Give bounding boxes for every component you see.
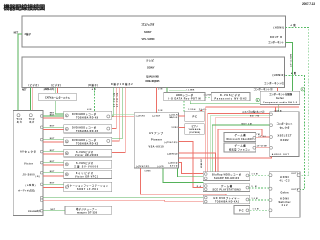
box: AV selector Victor JX-S900 (tall) (13, 111, 43, 216)
svg-text:セレクタ: セレクタ (280, 126, 291, 130)
svg-text:D-VHSビデオ: D-VHSビデオ (220, 93, 241, 97)
box: AV amp Pioneer VSA-AX10 (134, 113, 178, 169)
box: terrestrial tuner maspro (65, 206, 112, 214)
box: game Xbox360 (224, 133, 256, 142)
svg-text:5M: 5M (158, 110, 162, 112)
wire: TV D red to AV amp SAT (157, 88, 163, 113)
svg-text:(+)DVD/LD: (+)DVD/LD (167, 153, 178, 155)
svg-text:TOSHIBA HD-XA1: TOSHIBA HD-XA1 (215, 201, 240, 204)
box: piano YAMAHA (185, 124, 205, 134)
wire: TV to CATV terminal green (54, 88, 56, 94)
svg-text:コンポーネント: コンポーネント (268, 40, 285, 44)
wire pair row2 (40, 126, 63, 130)
wire: distributor red branch to comp selector top (248, 105, 282, 114)
svg-text:10M: 10M (252, 198, 258, 200)
svg-text:4M: 4M (87, 108, 91, 111)
svg-text:(HDMI2): (HDMI2) (273, 74, 285, 77)
wire: TV to CATV terminal red (57, 88, 59, 94)
svg-text:テレビ: テレビ (146, 59, 154, 63)
box: location free station SONY LF-PK1 (64, 182, 112, 191)
box U1: projector SONY VPL-VW60 (22, 16, 286, 47)
box: S-VHS Victor HR-20000 (64, 149, 112, 157)
svg-text:SONY: SONY (144, 30, 152, 34)
box: component selector XSELECT D4M2 (270, 112, 299, 157)
svg-text:2007.7.13: 2007.7.13 (302, 2, 315, 6)
wire: TV video2 red to selector (32, 88, 34, 112)
svg-text:YAMAHA: YAMAHA (189, 128, 201, 131)
svg-text:I-O DATA Rec-POT M: I-O DATA Rec-POT M (169, 98, 201, 101)
svg-text:5C-FB 5M: 5C-FB 5M (114, 93, 116, 107)
svg-text:AVC②: AVC② (170, 165, 178, 168)
svg-text:NET 3M: NET 3M (242, 124, 252, 126)
wire: amp TVmon1 red down to HD-XA1 top (141, 168, 227, 195)
wire: CATV down then to RD-X6 (50, 101, 64, 115)
wire: long red selector to HD-XA1 lower (40, 199, 203, 202)
svg-text:4x2: 4x2 (282, 204, 289, 207)
wire pair row4 (40, 150, 63, 154)
svg-text:OUT1: OUT1 (291, 173, 299, 175)
wire: projector HDMI dashed to switcher OUT1 (286, 23, 309, 175)
svg-text:i.LINK: i.LINK (186, 89, 194, 91)
wire: TV D1 green to RD-X6 right (112, 88, 113, 117)
svg-text:HDMI: HDMI (280, 176, 289, 179)
svg-text:AVアンプ: AVアンプ (149, 131, 163, 135)
wire: TV D-term dashed to RD-X6 (87, 88, 96, 112)
wire: amp VCR2 to piano red (179, 127, 185, 129)
box: game Nintendo (224, 143, 256, 152)
wire: amp TVmon2 red to PS3 D4 (179, 142, 204, 188)
svg-text:D4M2: D4M2 (281, 139, 290, 142)
wire: amp green to PS3 top (163, 168, 203, 182)
wire: red loop selector p3 to BluRay (218, 129, 270, 172)
svg-text:SHARP BD-HD100: SHARP BD-HD100 (214, 177, 240, 180)
svg-text:10M: 10M (252, 173, 258, 175)
wire: Nintendo to comp selector red (253, 144, 270, 150)
wire: TV iLINK to HDD rec (167, 88, 195, 93)
svg-text:4L-C2: 4L-C2 (280, 180, 291, 183)
svg-text:JX-S900: JX-S900 (23, 175, 36, 177)
wire: PC HDMI dashed to switcher (250, 209, 269, 211)
wire: RD-X6 to amp VCR1 red (112, 116, 134, 118)
svg-text:TOSHIBA RD-X6: TOSHIBA RD-X6 (76, 116, 99, 119)
svg-text:コンポーネント①: コンポーネント① (264, 81, 285, 85)
svg-text:Pioneer: Pioneer (151, 138, 162, 141)
wire pair row6 (40, 171, 63, 176)
wire pair row1 (40, 114, 63, 118)
box: component distributor Gefen DA 1:3 (260, 91, 299, 104)
wire: TV component1 red to distributor (254, 87, 278, 91)
svg-text:maspro DT-330: maspro DT-330 (77, 212, 98, 214)
svg-text:Gefen: Gefen (276, 97, 285, 100)
node: distributor out1 circle (301, 88, 304, 91)
wire: red pale loop to BluRay (216, 116, 270, 172)
wire: NET antenna into projector (14, 32, 22, 113)
wire: amp CD green to BluRay p2 (178, 168, 204, 176)
wire: TV D red to RD-X5 right (112, 88, 116, 129)
svg-text:SCE PLAYSTATION3: SCE PLAYSTATION3 (213, 189, 242, 192)
svg-text:(CLP880): (CLP880) (189, 132, 200, 134)
box: 8mm video (64, 170, 112, 178)
wire: amp CD-R to PC red (179, 115, 185, 117)
svg-text:Panasonic NV-DH2: Panasonic NV-DH2 (215, 98, 248, 101)
svg-text:VPL-VW60: VPL-VW60 (142, 37, 156, 41)
wire: iLINK dashed HDD to D-VHS (204, 95, 213, 98)
svg-text:(HDMI): (HDMI) (274, 27, 285, 30)
box: PC (top) (185, 111, 205, 121)
svg-text:コンポーネント②: コンポーネント② (254, 87, 274, 91)
svg-text:TOSHIBA RD-X5: TOSHIBA RD-X5 (76, 130, 99, 133)
box: S-VHS Mitsubishi SV-V6000 (64, 160, 112, 168)
node: distributor in circle2 (256, 98, 259, 101)
svg-text:Microsoft Xbox360: Microsoft Xbox360 (227, 138, 254, 141)
wire: amp DVD/LD red into loop bundle (179, 153, 216, 172)
box U2: TV SONY QUALIA KDE-46Q005 (22, 57, 285, 88)
svg-text:NET: NET (22, 89, 27, 91)
svg-text:OUT2: OUT2 (291, 189, 299, 191)
svg-text:XSELECT: XSELECT (278, 135, 293, 138)
svg-text:1394: 1394 (188, 108, 196, 111)
svg-text:Gefen: Gefen (281, 191, 290, 194)
svg-text:(+)CD: (+)CD (158, 166, 165, 168)
wire: long red loop under distributor (200, 107, 299, 172)
svg-text:(+)SAT: (+)SAT (152, 114, 161, 117)
box: BluRay SHARP BD-HD100 (203, 172, 249, 181)
box: game PS3 (203, 184, 249, 192)
wire: TV video out to selector port2 (30, 88, 32, 114)
svg-text:TOSHIBA RD-X3: TOSHIBA RD-X3 (76, 142, 99, 145)
box: HDD recorder Rec-POT M (164, 93, 205, 101)
svg-text:(+)VCR1: (+)VCR1 (136, 115, 145, 117)
svg-text:Victor: Victor (24, 162, 33, 165)
box: CATV home terminal (39, 93, 77, 101)
wire: amp AVC red to BluRay p1 (179, 163, 204, 174)
svg-text:AVセレクタ: AVセレクタ (20, 150, 36, 154)
svg-text:15M: 15M (253, 209, 259, 211)
wire pair row3 (40, 138, 63, 142)
svg-text:CATVホームターミナル: CATVホームターミナル (45, 95, 71, 99)
svg-text:PC: PC (239, 208, 244, 212)
wire pair row7 (40, 183, 63, 188)
wire: TV D red to RD-X3 right (112, 88, 119, 142)
svg-text:4M: 4M (92, 88, 96, 91)
wire: HD-XA1 HDMI dashed to switcher (249, 198, 269, 200)
wire: 1394 dashed HDD to PC (184, 101, 207, 112)
svg-text:5C-FB 5M: 5C-FB 5M (117, 93, 119, 107)
wire: BluRay HDMI dashed to switcher (249, 173, 269, 175)
wire: TV HDMI2 dashed to switcher OUT2 (286, 71, 305, 189)
wire: green pale loop to BluRay (210, 116, 269, 172)
svg-text:プロジェクタ: プロジェクタ (141, 23, 155, 27)
svg-text:5M: 5M (252, 186, 257, 188)
wire: long green selector to HD-XA1 (40, 196, 203, 199)
node: selector top input circles (17, 114, 20, 117)
svg-text:HDMI DVI: HDMI DVI (201, 159, 203, 169)
box: DVD/HDD TOSHIBA RD-X6 (64, 111, 112, 119)
box: HD DVD TOSHIBA HD-XA1 (203, 195, 249, 203)
wire: PS3 HDMI dashed to switcher (249, 186, 269, 188)
wire: TV D2 green to RD-X3 right (112, 88, 122, 139)
svg-text:Component audio DA 1:3: Component audio DA 1:3 (263, 101, 298, 104)
svg-text:3端子: 3端子 (25, 32, 32, 36)
box: DVD/HDD TOSHIBA RD-X5 (64, 125, 112, 133)
svg-text:HDDレコーダ: HDDレコーダ (176, 93, 194, 97)
svg-text:コンポーネント分配器: コンポーネント分配器 (269, 92, 293, 96)
wire: red loop selector p1 to BluRay (208, 110, 270, 172)
svg-text:SONY: SONY (147, 66, 155, 70)
wire: Xbox to comp selector red (253, 134, 270, 139)
wire: HDD green long to comp selector (190, 101, 260, 104)
svg-text:2M: 2M (158, 89, 162, 91)
svg-text:CVBS: CVBS (145, 170, 152, 172)
wire: RD-X6 to amp VCR1 green (112, 114, 134, 116)
title: 機器配線接続図 (4, 3, 46, 12)
svg-text:SONY LF-PK1: SONY LF-PK1 (77, 189, 99, 191)
svg-text:AUDIO OUT: AUDIO OUT (272, 153, 290, 156)
svg-text:(+)AVC①: (+)AVC① (168, 161, 178, 164)
svg-text:BD 7M: BD 7M (250, 116, 259, 118)
box: DVD/HDD TOSHIBA RD-X3 (64, 137, 112, 145)
svg-text:Victor HR-20000: Victor HR-20000 (75, 154, 99, 157)
svg-text:Victor GR-VFC1: Victor GR-VFC1 (75, 175, 99, 178)
svg-text:VCR2: VCR2 (172, 127, 178, 129)
box: HDMI switcher Gefen 4x2 (269, 172, 300, 218)
wire: green loop selector p2 to BluRay (212, 124, 269, 172)
svg-text:DOUT B: DOUT B (270, 36, 282, 39)
svg-text:QUALIA 005: QUALIA 005 (146, 74, 160, 78)
svg-text:コンポーネント: コンポーネント (277, 122, 294, 126)
wire: projector DOUT B green to distributor (286, 43, 293, 92)
wire pair row5 (40, 161, 63, 165)
svg-text:VSA-AX10: VSA-AX10 (149, 145, 165, 148)
wire: TV D red to S-VHS right (112, 88, 125, 153)
box: PC (bottom right) (234, 206, 250, 215)
box: D-VHS Panasonic NV-DH2 (211, 93, 250, 101)
svg-text:KDE-46Q005: KDE-46Q005 (146, 79, 161, 83)
wire: audio out red selector to amp (179, 157, 272, 159)
svg-text:PC: PC (193, 115, 198, 119)
wire: selector PRGRM to tuner (40, 209, 65, 212)
